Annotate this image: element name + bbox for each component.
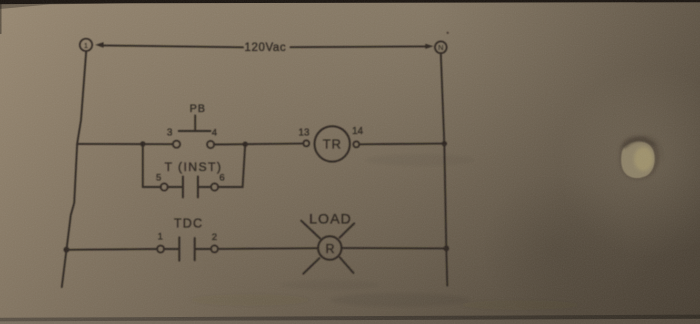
wire left rail [62,51,86,287]
hole punch [619,135,662,179]
arrowhead right [425,44,433,49]
contact TDC terminal 2 [211,245,218,252]
contact TDC [164,237,211,260]
wire rung1 middle [214,143,303,146]
wire branch down [142,144,144,187]
node junction right rail rung2 [443,246,449,252]
top dark band [0,0,700,4]
node junction A [140,141,145,146]
wire rung2 left [66,248,157,251]
wire branch right [218,144,245,187]
node junction B [243,142,248,147]
contact T terminal 5 [161,183,168,190]
pilot light R [301,221,354,274]
contact TDC terminal 1 [157,246,164,253]
terminal L1 [80,39,92,51]
wire rung1 right [359,143,444,146]
node junction left rail rung2 [64,247,70,253]
arrowhead left [95,42,103,48]
pushbutton PB terminal 3 [173,141,180,148]
node junction right rail rung1 [442,141,447,146]
wire top right segment [291,45,426,48]
speck [447,32,449,34]
wire rung2 middle [218,247,318,250]
wire top left segment [103,45,244,47]
bottom page edge [0,0,1,1]
pushbutton PB [179,103,211,131]
coil TR terminal 14 [353,141,359,147]
contact T terminal 6 [211,183,218,190]
contact T(INST) [168,177,212,198]
wire rung1 left [77,143,173,145]
wire right rail [441,53,448,285]
pushbutton PB terminal 4 [207,141,214,148]
coil TR [315,126,350,161]
coil TR terminal 13 [303,140,309,146]
wire rung2 right [342,247,447,249]
terminal N [435,41,447,53]
wire branch left [143,186,161,188]
faint bleed-through smudges [190,154,580,310]
